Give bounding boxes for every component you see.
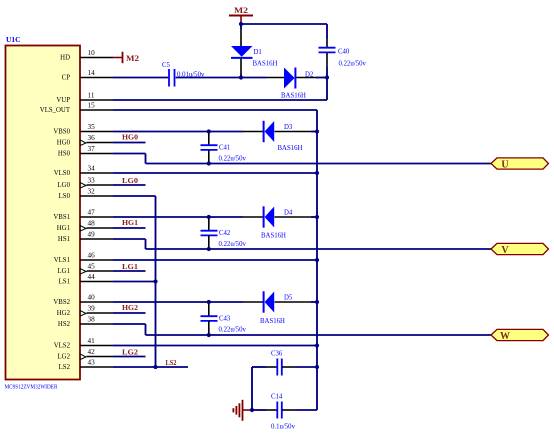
- wire CP net (pin 14 to charge pump): [113, 77, 284, 79]
- pin 38 (HS2): [58, 316, 113, 329]
- wire VLS0 net: [113, 172, 317, 174]
- svg-text:VLS_OUT: VLS_OUT: [40, 107, 71, 114]
- ground symbol: [233, 400, 252, 421]
- wire HS2 to phase output: [113, 324, 491, 335]
- svg-text:BAS16H: BAS16H: [260, 318, 285, 325]
- pin 41 (VLS2): [54, 337, 113, 350]
- capacitor C14: [252, 394, 317, 419]
- svg-text:0.22u/50v: 0.22u/50v: [339, 61, 367, 68]
- pin 37 (HS0): [58, 145, 113, 158]
- junction C41 top: [207, 129, 211, 133]
- wire LG2 stub: [113, 356, 146, 358]
- svg-text:VLS0: VLS0: [54, 170, 71, 177]
- junction LS rail / LS2: [153, 365, 157, 369]
- wire LS1 net (pin 44): [113, 281, 156, 283]
- svg-text:D3: D3: [284, 124, 293, 131]
- capacitor C41 (bootstrap): [201, 132, 231, 164]
- svg-text:11: 11: [88, 92, 95, 100]
- junction ground / C14: [250, 408, 254, 412]
- wire VBS1 net (bootstrap): [113, 216, 317, 218]
- svg-text:HS0: HS0: [58, 151, 71, 158]
- svg-text:C14: C14: [271, 394, 283, 401]
- svg-text:HG1: HG1: [57, 225, 70, 232]
- pin 40 (VBS2): [53, 294, 113, 307]
- pin 44 (LS1): [59, 273, 113, 286]
- power port M2 (top bar symbol): [229, 6, 253, 23]
- svg-text:33: 33: [88, 177, 96, 185]
- pin 48 (HG1): [57, 220, 113, 233]
- svg-text:D1: D1: [254, 49, 262, 56]
- svg-text:49: 49: [88, 231, 96, 239]
- pin 14 (CP): [62, 69, 113, 82]
- svg-text:CP: CP: [62, 75, 71, 82]
- pin 10 (HD): [60, 49, 113, 62]
- svg-text:MC9S12ZVM32WIDER: MC9S12ZVM32WIDER: [5, 384, 59, 391]
- svg-text:0.22u/50v: 0.22u/50v: [219, 155, 247, 162]
- wire VLS2 net: [113, 345, 317, 347]
- svg-text:LG0: LG0: [122, 176, 138, 185]
- net label HG0: [122, 132, 138, 141]
- junction CP/D1 node: [239, 75, 243, 79]
- svg-text:LS0: LS0: [59, 193, 71, 200]
- pin 34 (VLS0): [54, 165, 113, 178]
- junction VLS rail / VLS1: [315, 258, 319, 262]
- junction VUP/D2/C40 node: [325, 75, 329, 79]
- svg-text:HG2: HG2: [57, 310, 71, 317]
- svg-text:BAS16H: BAS16H: [278, 145, 303, 152]
- net label HG2: [122, 303, 138, 312]
- pin 35 (VBS0): [53, 123, 113, 136]
- svg-text:42: 42: [88, 348, 96, 356]
- svg-text:41: 41: [88, 337, 96, 345]
- capacitor C5: [162, 62, 175, 87]
- pin 42 (LG2): [58, 348, 113, 361]
- junction C41 bottom on U wire: [207, 161, 211, 165]
- svg-text:HG0: HG0: [57, 140, 71, 147]
- svg-text:0.22u/50v: 0.22u/50v: [219, 241, 247, 248]
- pin 33 (LG0): [58, 177, 113, 190]
- pin 46 (VLS1): [54, 252, 113, 265]
- svg-text:43: 43: [88, 359, 96, 367]
- wire LS2 net (pin 43): [113, 366, 188, 368]
- pin 15 (VLS_OUT): [40, 102, 113, 115]
- svg-text:M2: M2: [234, 6, 248, 15]
- pin 36 (HG0): [57, 134, 113, 147]
- svg-text:45: 45: [88, 263, 96, 271]
- junction VLS rail / VLS0: [315, 171, 319, 175]
- svg-text:46: 46: [88, 252, 96, 260]
- wire M2 node to D1 anode: [240, 24, 242, 46]
- svg-text:LG0: LG0: [58, 182, 71, 189]
- pin 49 (HS1): [58, 231, 113, 244]
- pin 11 (VUP): [56, 92, 113, 105]
- wire HG1 stub: [113, 227, 146, 229]
- svg-text:VBS2: VBS2: [53, 299, 70, 306]
- svg-text:47: 47: [88, 209, 96, 217]
- svg-text:0.1u/50v: 0.1u/50v: [271, 424, 296, 431]
- svg-text:10: 10: [88, 49, 96, 57]
- svg-text:W: W: [500, 331, 510, 342]
- value label 0.22u/50v (C41): [219, 155, 247, 162]
- junction C42 top: [207, 215, 211, 219]
- svg-text:VBS0: VBS0: [53, 129, 70, 136]
- svg-text:HG1: HG1: [122, 218, 138, 227]
- wire HG0 stub: [113, 142, 146, 144]
- capacitor C42 (bootstrap): [201, 217, 231, 249]
- svg-text:BAS16H: BAS16H: [261, 233, 286, 240]
- power port M2 at pin 10 (HD): [113, 52, 139, 63]
- wire LS0 net (pin 32) down rail: [113, 196, 156, 367]
- svg-text:M2: M2: [126, 54, 139, 63]
- svg-text:LG1: LG1: [58, 268, 70, 275]
- wire VLS_OUT net (pin 15) vertical rail: [113, 110, 317, 410]
- svg-text:15: 15: [88, 102, 96, 110]
- svg-text:39: 39: [88, 305, 96, 313]
- svg-text:U: U: [501, 159, 508, 170]
- diode D1 BAS16H: [231, 46, 278, 78]
- svg-text:37: 37: [88, 145, 96, 153]
- pin 45 (LG1): [58, 263, 113, 276]
- wire VBS0 net (bootstrap): [113, 131, 317, 133]
- port U (phase output): [491, 158, 549, 170]
- pin 39 (HG2): [57, 305, 113, 318]
- diode D3 BAS16H: [264, 121, 303, 152]
- svg-text:HD: HD: [60, 55, 70, 62]
- wire HS0 to phase output: [113, 154, 491, 164]
- wire LG0 stub: [113, 184, 146, 186]
- wire VUP net (pin 11): [113, 78, 327, 101]
- svg-text:32: 32: [88, 188, 96, 196]
- capacitor C36: [252, 351, 317, 376]
- junction VLS rail / D4: [315, 215, 319, 219]
- diode D2 BAS16H: [281, 68, 327, 100]
- svg-text:34: 34: [88, 165, 96, 173]
- net label HG1: [122, 218, 138, 227]
- diode D4 BAS16H: [261, 206, 293, 239]
- wire C36 left leg down to ground node: [251, 367, 253, 410]
- svg-text:14: 14: [88, 69, 96, 77]
- value label 0.01u/50v (C5): [177, 72, 205, 79]
- svg-text:C42: C42: [219, 230, 231, 237]
- svg-text:HG0: HG0: [122, 132, 138, 141]
- wire HS1 to phase output: [113, 239, 491, 249]
- net label LG0: [122, 176, 138, 185]
- svg-text:35: 35: [88, 123, 96, 131]
- wire M2 top rail to C40: [241, 24, 327, 47]
- svg-text:HS1: HS1: [58, 236, 70, 243]
- svg-text:C41: C41: [219, 145, 230, 152]
- svg-text:0.01u/50v: 0.01u/50v: [177, 72, 205, 79]
- wire LG1 stub: [113, 270, 146, 272]
- junction C43 bottom on W wire: [207, 333, 211, 337]
- junction LS rail / LS1: [153, 279, 157, 283]
- diode D5 BAS16H: [260, 291, 293, 325]
- svg-text:VLS2: VLS2: [54, 343, 71, 350]
- svg-text:D5: D5: [284, 295, 293, 302]
- junction VLS rail / C36: [315, 365, 319, 369]
- value label 0.22u/50v (C40): [339, 61, 367, 68]
- svg-text:36: 36: [88, 134, 96, 142]
- svg-text:LG2: LG2: [122, 347, 138, 356]
- svg-text:LS2: LS2: [166, 358, 177, 367]
- svg-text:LG1: LG1: [122, 262, 138, 271]
- capacitor C43 (bootstrap): [201, 302, 231, 335]
- net label LG1: [122, 262, 138, 271]
- junction VLS rail / VLS2: [315, 343, 319, 347]
- wire VBS2 net (bootstrap): [113, 301, 317, 303]
- svg-text:U1C: U1C: [6, 35, 21, 44]
- value label 0.22u/50v (C42): [219, 241, 247, 248]
- port W (phase output): [491, 329, 549, 341]
- svg-text:D4: D4: [284, 210, 293, 217]
- svg-text:VLS1: VLS1: [54, 257, 70, 264]
- svg-text:VBS1: VBS1: [53, 214, 70, 221]
- svg-text:BAS16H: BAS16H: [253, 61, 278, 68]
- pin 32 (LS0): [59, 188, 113, 201]
- svg-text:40: 40: [88, 294, 96, 302]
- port V (phase output): [491, 243, 549, 255]
- IC U1C MC9S12ZVM32WIDER: [5, 35, 81, 391]
- junction C43 top: [207, 300, 211, 304]
- junction VLS rail / D3: [315, 129, 319, 133]
- value label 0.22u/50v (C43): [219, 326, 247, 333]
- svg-text:HG2: HG2: [122, 303, 138, 312]
- value label 0.1u/50v (C14): [271, 424, 296, 431]
- svg-text:VUP: VUP: [56, 97, 70, 104]
- junction VLS rail / D5: [315, 300, 319, 304]
- wire HG2 stub: [113, 312, 146, 314]
- svg-text:48: 48: [88, 220, 96, 228]
- wire VLS1 net: [113, 259, 317, 261]
- svg-text:LG2: LG2: [58, 354, 71, 361]
- svg-text:38: 38: [88, 316, 96, 324]
- svg-text:LS1: LS1: [59, 279, 70, 286]
- svg-text:44: 44: [88, 273, 96, 281]
- svg-text:D2: D2: [305, 72, 314, 79]
- pin 43 (LS2): [59, 359, 113, 372]
- junction M2 node: [239, 22, 243, 26]
- capacitor C40: [319, 48, 350, 78]
- svg-text:C36: C36: [271, 351, 283, 358]
- svg-text:C43: C43: [219, 316, 231, 323]
- svg-text:LS2: LS2: [59, 364, 71, 371]
- net label LG2: [122, 347, 138, 356]
- svg-text:C40: C40: [338, 49, 350, 56]
- svg-text:V: V: [501, 245, 509, 256]
- svg-text:0.22u/50v: 0.22u/50v: [219, 326, 247, 333]
- svg-text:BAS16H: BAS16H: [281, 93, 306, 100]
- junction C42 bottom on V wire: [207, 247, 211, 251]
- net label LS2: [166, 358, 177, 367]
- svg-text:HS2: HS2: [58, 321, 71, 328]
- pin 47 (VBS1): [53, 209, 113, 222]
- svg-text:C5: C5: [162, 62, 171, 69]
